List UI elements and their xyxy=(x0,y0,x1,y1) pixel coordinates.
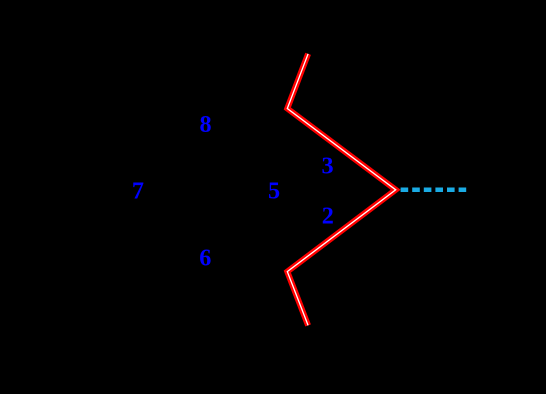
svg-text:6: 6 xyxy=(199,245,211,272)
atom label 6 xyxy=(199,245,211,272)
dashed bond at C1 (cyan) xyxy=(401,188,467,193)
atom label 5 xyxy=(268,178,280,205)
atom label 8 xyxy=(200,111,212,138)
highlighted bond chain C3-C4-C1-C2 (red highlight) xyxy=(287,54,395,326)
svg-text:8: 8 xyxy=(200,111,212,138)
svg-text:5: 5 xyxy=(268,178,280,205)
atom label 7 xyxy=(132,178,144,205)
svg-text:3: 3 xyxy=(321,152,333,179)
svg-text:2: 2 xyxy=(322,203,334,230)
bond core line (white) xyxy=(287,54,395,326)
svg-text:7: 7 xyxy=(132,178,144,205)
atom label 2 xyxy=(322,203,334,230)
atom label 3 xyxy=(321,152,333,179)
